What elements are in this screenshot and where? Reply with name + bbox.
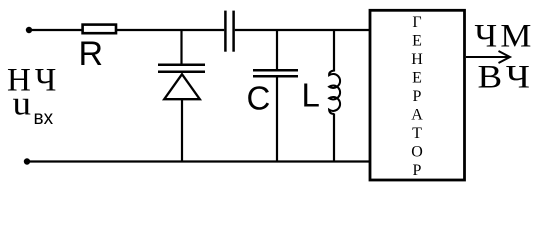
wire varactor branch lower (181, 99, 183, 161)
wire bottom rail (27, 160, 370, 162)
inductor L coil (329, 71, 340, 115)
input terminal top (26, 27, 32, 33)
label ГЕНЕРАТОР (411, 14, 423, 179)
svg-text:ЧМ: ЧМ (475, 19, 535, 55)
svg-text:Е: Е (412, 33, 422, 50)
svg-text:Г: Г (412, 14, 421, 31)
svg-text:Т: Т (412, 125, 422, 142)
wire C branch lower (276, 77, 278, 161)
svg-text:L: L (302, 77, 320, 114)
wire top rail left (29, 29, 82, 31)
varactor VD bottom plate (158, 71, 205, 74)
svg-text:u: u (13, 86, 32, 123)
svg-text:А: А (411, 107, 423, 124)
capacitor C2 coupling left plate (224, 11, 227, 52)
wire top rail middle (117, 29, 224, 31)
output arrow (466, 56, 509, 58)
wire L branch upper (333, 30, 335, 72)
generator box U1 (370, 10, 465, 180)
svg-text:О: О (411, 144, 423, 161)
resistor R (83, 25, 116, 34)
svg-text:вх: вх (34, 108, 54, 129)
svg-text:Е: Е (412, 70, 422, 87)
svg-text:Н: Н (411, 51, 423, 68)
wire varactor branch upper (180, 30, 182, 64)
capacitor C top plate (253, 69, 298, 72)
wire L branch lower (333, 114, 335, 162)
svg-text:R: R (79, 35, 104, 73)
capacitor C2 coupling right plate (232, 11, 235, 52)
svg-text:C: C (247, 80, 271, 117)
svg-text:ВЧ: ВЧ (478, 60, 536, 96)
varactor VD top plate (158, 64, 205, 67)
svg-text:Р: Р (413, 162, 422, 179)
capacitor C bottom plate (253, 75, 298, 78)
wire C branch upper (276, 30, 278, 69)
svg-text:Р: Р (413, 88, 422, 105)
wire top rail right (235, 29, 370, 31)
varactor VD diode triangle (164, 74, 200, 99)
input terminal bottom (24, 158, 30, 164)
